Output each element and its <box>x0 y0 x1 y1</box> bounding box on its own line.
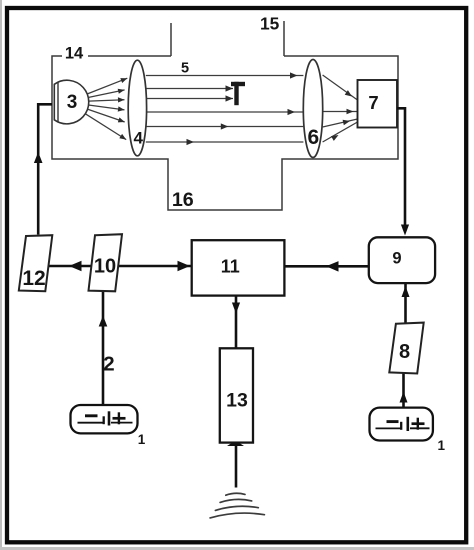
svg-text:5: 5 <box>181 60 189 76</box>
wire block 11 down to block 13 <box>232 296 240 348</box>
svg-text:9: 9 <box>392 250 401 268</box>
lens 6 <box>303 60 322 158</box>
wire block 9 to block 11 <box>285 261 369 272</box>
block 12 (parallelogram) <box>19 235 53 291</box>
wire block 10 to block 12 <box>49 261 92 271</box>
converging rays from lens 6 to detector 7 <box>323 75 358 142</box>
block 9 (rounded rectangle) <box>369 237 435 283</box>
label 5 <box>178 60 193 76</box>
battery 1 (right) <box>370 408 446 453</box>
block 8 (parallelogram) <box>389 323 423 374</box>
svg-text:15: 15 <box>260 14 280 34</box>
svg-text:8: 8 <box>399 341 410 363</box>
svg-text:1: 1 <box>438 438 446 453</box>
block 10 (parallelogram) <box>89 234 123 291</box>
wire from block 12 up to lamp 3 <box>34 104 52 234</box>
svg-text:6: 6 <box>307 126 319 149</box>
wire block 10 to block 11 <box>119 261 191 271</box>
svg-text:12: 12 <box>22 267 45 290</box>
lens 4 <box>128 60 146 156</box>
svg-text:14: 14 <box>65 45 84 63</box>
sample target T in beam <box>231 82 245 105</box>
svg-text:10: 10 <box>94 255 116 277</box>
svg-text:3: 3 <box>67 92 78 113</box>
label 14 <box>62 45 88 63</box>
svg-text:11: 11 <box>221 257 240 277</box>
wire below block 13 to radiator <box>227 441 244 488</box>
wire block 8 up to block 9 <box>402 284 410 323</box>
svg-text:1: 1 <box>138 432 146 447</box>
collimated beam rays 5 <box>146 72 304 145</box>
light source lamp 3 <box>54 80 88 124</box>
enclosure housing 14 <box>52 21 398 210</box>
diverging light rays from source 3 to lens 4 <box>85 78 127 140</box>
svg-text:4: 4 <box>133 129 143 148</box>
battery 1 (left) <box>71 405 146 447</box>
detector box 7 <box>358 80 398 128</box>
svg-text:16: 16 <box>172 189 194 211</box>
wire detector 7 down to block 9 <box>397 108 409 235</box>
block 13 (tall rectangle) <box>220 348 253 442</box>
wire from battery 1 up to block 10, label 2 <box>99 292 116 405</box>
block 11 (rectangle) <box>192 240 285 295</box>
svg-text:7: 7 <box>368 92 378 113</box>
svg-text:2: 2 <box>103 353 114 376</box>
wire battery 1 up to block 8 <box>400 374 408 408</box>
svg-text:13: 13 <box>226 389 248 411</box>
radiating waves below 13 <box>210 493 264 518</box>
top opening side walls (port 15) <box>170 23 172 56</box>
